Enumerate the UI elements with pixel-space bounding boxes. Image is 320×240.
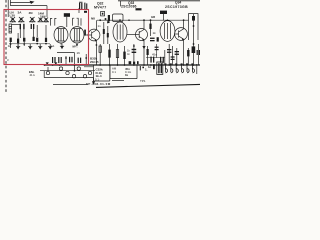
svg-text:k1: k1 (52, 44, 55, 48)
switch contact 4 (77, 67, 80, 70)
junction dot (167, 19, 169, 21)
switch contact 2 (59, 67, 62, 70)
resistor R303 (33, 37, 35, 41)
emitter wire Q34 (183, 39, 185, 65)
pin 2 (170, 63, 173, 72)
wire vertical left (7, 0, 9, 17)
bottom rail (96, 84, 200, 87)
switch contact 1 (46, 71, 49, 74)
resistor R311 (147, 46, 149, 65)
IF transformer T2 (70, 27, 84, 43)
wire switch feed (74, 65, 76, 71)
wire lower (44, 71, 93, 78)
pin 3 (175, 63, 178, 72)
bus arrow mark 2 (54, 62, 57, 64)
svg-text:16: 16 (77, 51, 81, 55)
wire vertical (9, 0, 11, 6)
emitter wire Q33 (143, 40, 145, 66)
junction dot (99, 19, 101, 21)
IF transformer T3 (113, 22, 127, 42)
resistor R309 (123, 46, 125, 65)
svg-text:0.1: 0.1 (112, 70, 116, 74)
wire horizontal (146, 57, 165, 59)
trimmer capacitor CT2 (18, 17, 25, 22)
capacitor blob (108, 15, 110, 21)
capacitor C314 (167, 49, 171, 53)
chassis arrow 1 (16, 44, 20, 50)
capacitor C318 (78, 58, 82, 63)
chassis arrow 3 (38, 44, 42, 50)
connector pin row (164, 63, 194, 72)
resistor R304 (36, 38, 38, 42)
resistor R310 (187, 48, 189, 65)
capacitor C308 (103, 22, 105, 44)
wire stub (120, 1, 122, 7)
wire to label row (53, 84, 88, 86)
L wire above bus (57, 53, 75, 65)
wire (164, 50, 166, 65)
contact stem (47, 67, 49, 71)
svg-text:GR: GR (151, 15, 155, 19)
svg-text:TP·308·01·0M: TP·308·01·0M (86, 82, 111, 86)
svg-text:L30: L30 (10, 14, 16, 18)
switch wire (40, 70, 95, 72)
bus arrow mark 1 (46, 62, 49, 64)
wire right edge (198, 44, 200, 65)
emitter wire Q31 (95, 40, 97, 65)
marks near TP (140, 66, 144, 70)
pin 5 (186, 63, 189, 72)
value text column (127, 49, 130, 56)
svg-text:41·k: 41·k (30, 73, 36, 77)
capacitor C309 (107, 26, 109, 44)
capacitor C312 (150, 57, 154, 63)
small cap mark (84, 11, 87, 13)
capacitor C315 (175, 51, 179, 55)
resistor R301 (10, 38, 12, 42)
filter box top of T3 (113, 14, 124, 22)
capacitor C301 (79, 2, 83, 9)
wire (168, 44, 170, 65)
wire vertical drop (46, 6, 48, 17)
ceramic filter CF1 (101, 12, 105, 16)
capacitor C311 (132, 45, 137, 53)
IF transformer T1 tops (51, 18, 57, 25)
wire (36, 25, 38, 37)
junction dot (143, 19, 145, 21)
terminal box B2 (110, 65, 137, 79)
wire top horizontal (10, 1, 31, 3)
junction dot (119, 19, 121, 21)
wire with junction (10, 42, 12, 48)
emitter arrow mark (142, 46, 145, 49)
trimmer capacitor CT1 (10, 17, 17, 22)
junction dot row (12, 21, 47, 22)
resistor R305 (149, 19, 151, 36)
pin row end wire (196, 64, 198, 74)
capacitor C304 (31, 24, 35, 29)
switch contact 5 (88, 71, 91, 74)
junction dot (36, 43, 38, 45)
capacitor C313 (160, 57, 164, 63)
junction dot (23, 43, 25, 45)
switch contact 3 (66, 71, 69, 74)
wire (78, 8, 80, 13)
trimmer capacitor CT3 (29, 17, 36, 22)
wire (12, 24, 21, 26)
transistor Q33 (127, 29, 148, 42)
wire (65, 56, 67, 65)
svg-text:0.1·: 0.1· (95, 77, 100, 81)
wire (176, 48, 178, 65)
lead under T1 (60, 43, 62, 45)
wire (33, 29, 35, 37)
mark (153, 64, 155, 69)
svg-text:1k: 1k (125, 73, 129, 77)
shield can outline top right (189, 14, 199, 40)
svg-text:1n: 1n (98, 24, 102, 28)
svg-text:TP1: TP1 (140, 79, 146, 83)
svg-text:1k: 1k (153, 31, 157, 35)
pin 4 (181, 63, 184, 72)
collector wire Q33 (143, 20, 145, 29)
svg-text:MV477: MV477 (94, 5, 106, 9)
chassis arrow 5 (60, 44, 64, 50)
pin 1 (164, 63, 167, 72)
antenna coil L1 (9, 24, 12, 33)
wire (23, 42, 25, 46)
wire T4 top lead (163, 14, 165, 21)
terminal box B1 (94, 65, 110, 81)
capacitor C303 (20, 24, 25, 29)
switch contact 6 (72, 75, 75, 78)
resistor R306 (99, 44, 101, 65)
capacitor C320 (171, 46, 175, 65)
arrow connector (30, 1, 35, 4)
base bar Q31 (84, 30, 86, 36)
resistor R307 (108, 44, 110, 65)
chassis arrow 2 (28, 44, 32, 50)
junction dot (96, 44, 98, 46)
svg-text:1n: 1n (148, 65, 152, 69)
junction dot (45, 43, 47, 45)
IF transformer T2 tops (73, 18, 81, 25)
transistor Q34 (175, 28, 188, 41)
svg-text:3c: 3c (8, 44, 12, 48)
wire (17, 33, 19, 46)
stubs on bus (44, 64, 76, 66)
capacitor C310 (150, 37, 159, 41)
wire (66, 17, 68, 27)
transistor Q31 (86, 29, 100, 42)
capacitor C306 blob (45, 38, 47, 42)
capacitor C307 body (64, 13, 70, 17)
junction dot (85, 57, 87, 59)
wire (23, 29, 25, 38)
collector wire Q34 (183, 20, 185, 29)
top rail wire (118, 0, 200, 2)
junction dot (128, 19, 130, 21)
capacitor C317 (58, 57, 62, 63)
capacitor C322 (69, 57, 73, 63)
svg-text:2SC2086: 2SC2086 (121, 5, 137, 9)
ground bus wire (9, 43, 50, 45)
wire (156, 44, 158, 58)
red highlight box (4, 10, 89, 65)
wire (133, 44, 135, 65)
label 1k bold (160, 11, 167, 14)
wire horizontal (10, 5, 47, 7)
svg-text:2SC1973GB: 2SC1973GB (165, 5, 188, 9)
mid rail wire (97, 19, 189, 21)
svg-text:45n: 45n (152, 52, 157, 56)
wire (85, 54, 87, 65)
collector wire Q31 (95, 20, 97, 30)
svg-text:2SC45: 2SC45 (90, 60, 99, 64)
wire (112, 80, 124, 82)
resistor R308 (116, 44, 118, 65)
down arrow (92, 78, 95, 85)
capacitor C321 (197, 50, 201, 55)
wire (45, 25, 47, 38)
junction dot (183, 19, 185, 21)
wire (19, 29, 21, 38)
coil in shield can (192, 14, 196, 64)
chassis arrow 4 (48, 44, 52, 50)
capacitor C319 (155, 47, 159, 51)
trimmer capacitor CT4 (38, 18, 50, 22)
bold marks above box2 (129, 61, 139, 64)
pin 6 (191, 63, 194, 72)
IF transformer T4 (160, 21, 175, 42)
relay block (157, 62, 163, 74)
resistor R302 (17, 39, 19, 44)
capacitor C316 (52, 57, 56, 63)
label GR (136, 8, 142, 10)
junction dot (10, 43, 12, 45)
junction dots on bus (99, 64, 194, 66)
lead under T2 (76, 43, 78, 46)
capacitor C305 blob (23, 38, 25, 42)
dashed chassis boundary line (5, 0, 7, 92)
main ground bus (44, 64, 200, 66)
capacitor C302 (84, 3, 87, 10)
text in box (95, 67, 103, 81)
svg-text:1N4: 1N4 (40, 14, 46, 18)
junction dot (74, 70, 76, 72)
IF transformer T1 (54, 27, 68, 43)
switch contact 7 (83, 75, 86, 78)
junction dot (65, 57, 67, 59)
polarity arrow (105, 18, 111, 23)
text in box B2 (112, 66, 132, 77)
bus parallel stub (84, 66, 94, 68)
svg-text:N8: N8 (91, 16, 95, 20)
